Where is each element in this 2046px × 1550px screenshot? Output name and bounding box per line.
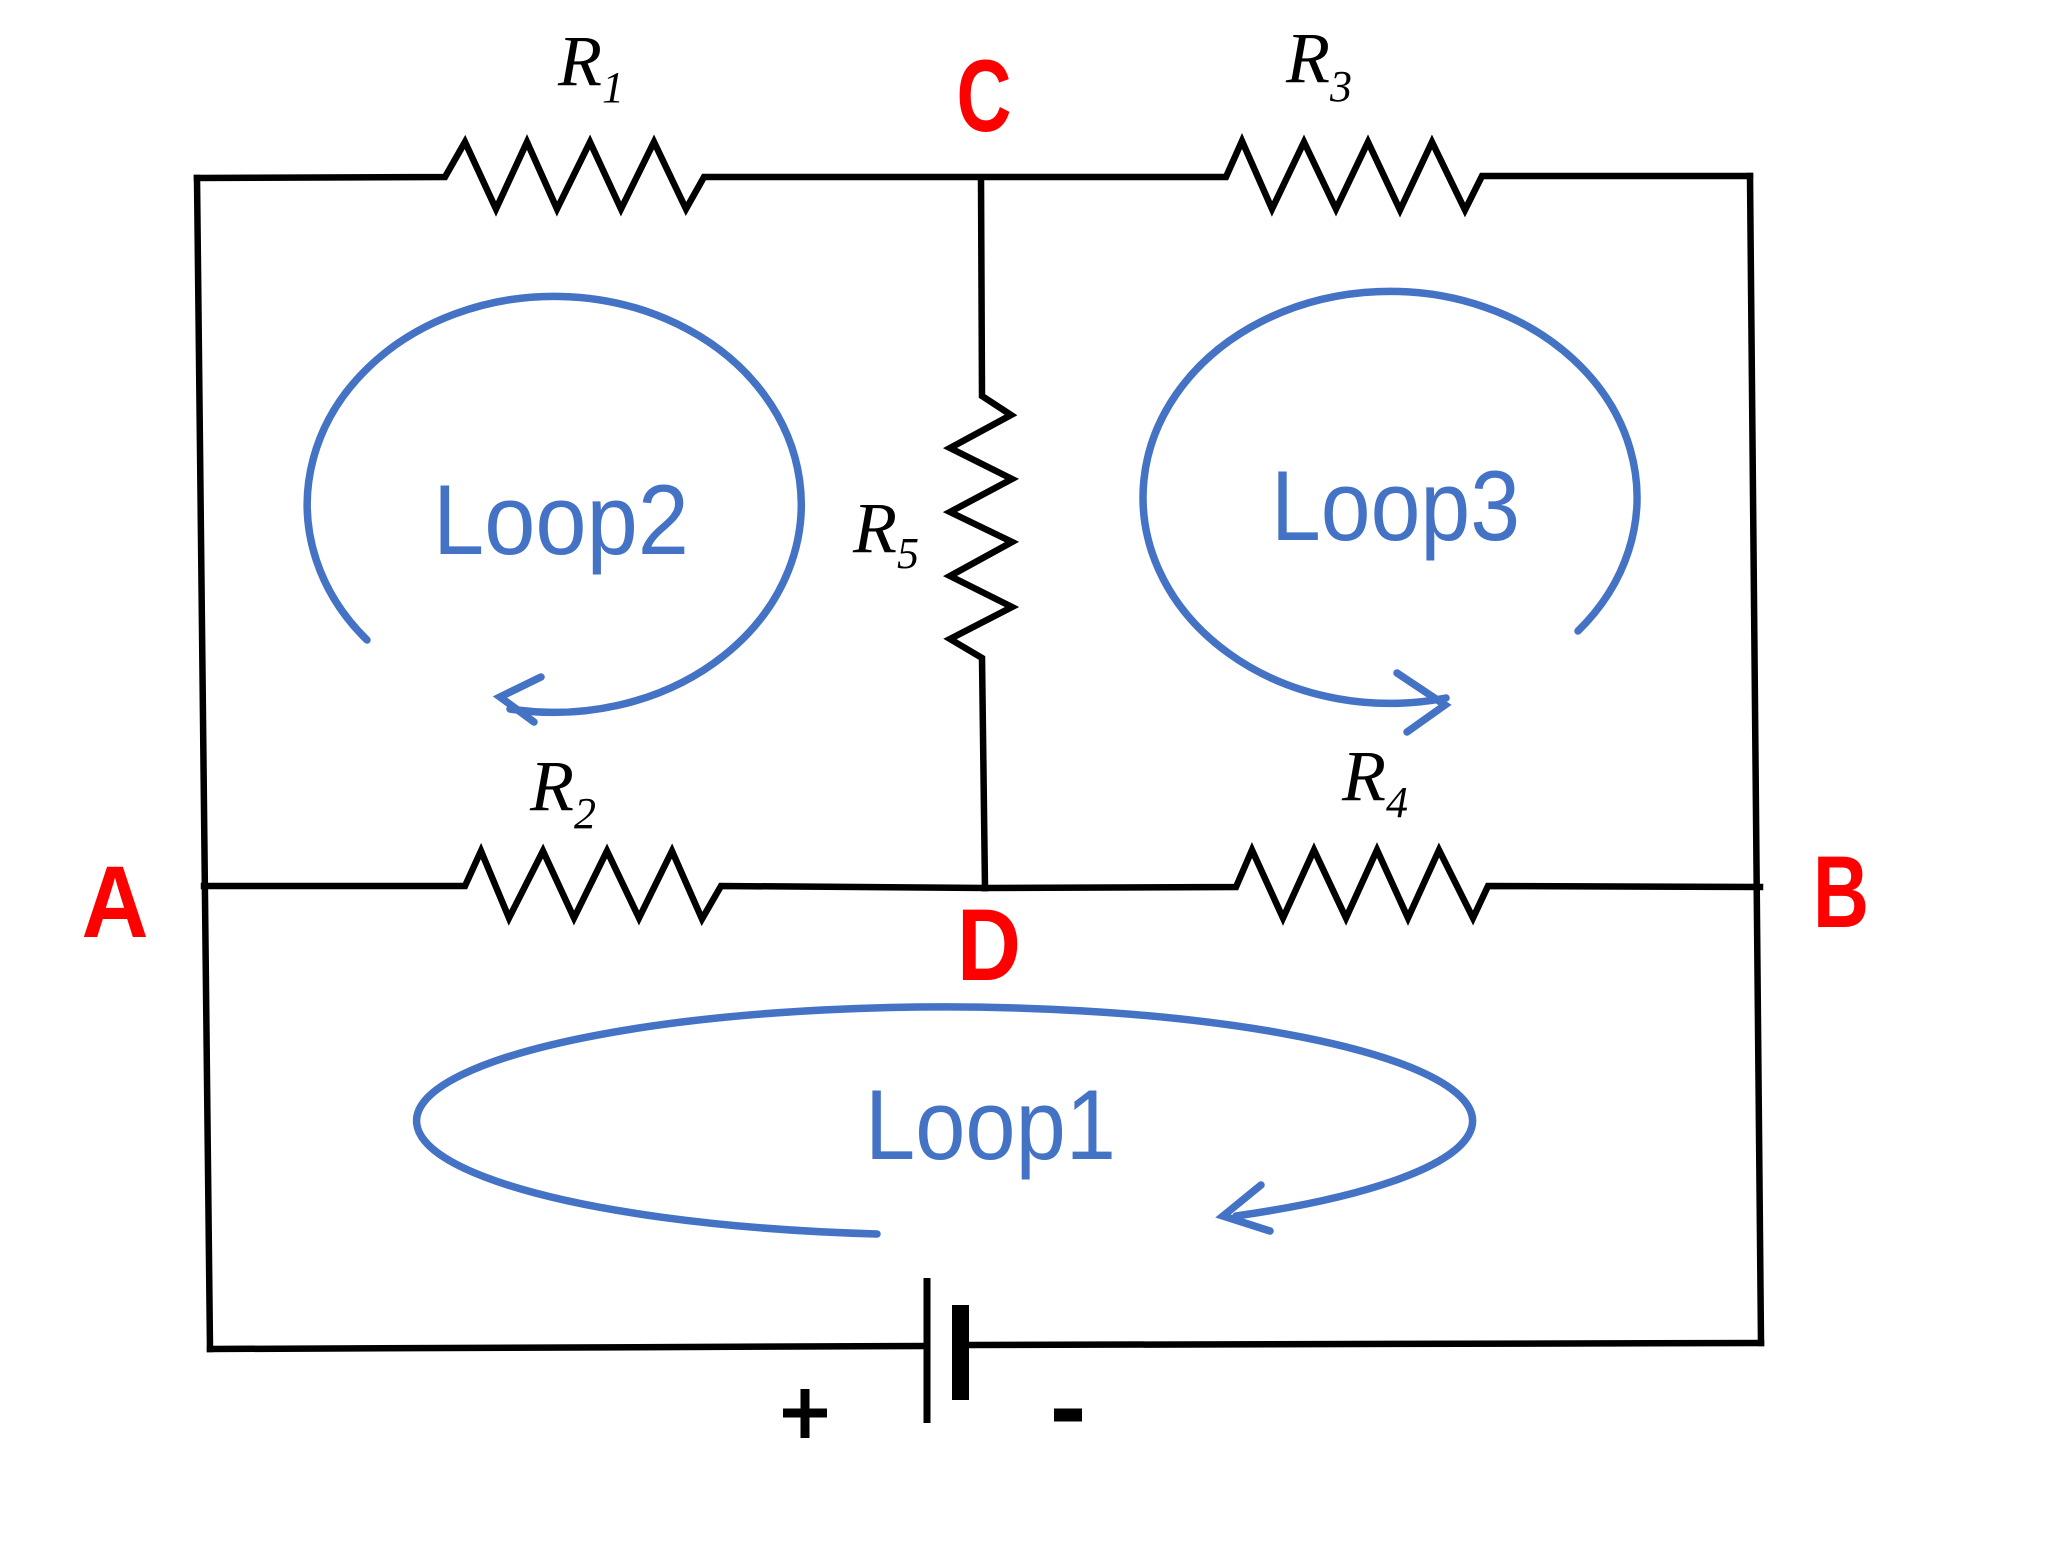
svg-text:R: R: [1341, 736, 1386, 816]
svg-text:C: C: [957, 39, 1012, 153]
svg-text:B: B: [1813, 835, 1869, 949]
svg-text:D: D: [957, 888, 1021, 1002]
svg-text:A: A: [82, 845, 149, 959]
svg-text:R: R: [852, 488, 897, 568]
svg-text:Loop2: Loop2: [433, 464, 689, 575]
svg-text:R: R: [557, 21, 602, 101]
svg-text:Loop3: Loop3: [1271, 450, 1520, 561]
svg-text:3: 3: [1329, 62, 1352, 111]
svg-text:Loop1: Loop1: [865, 1069, 1116, 1180]
svg-text:5: 5: [897, 529, 919, 578]
svg-text:R: R: [529, 746, 574, 826]
svg-text:2: 2: [574, 789, 596, 838]
svg-text:R: R: [1285, 18, 1330, 98]
svg-text:1: 1: [602, 63, 624, 112]
svg-text:4: 4: [1386, 778, 1408, 827]
